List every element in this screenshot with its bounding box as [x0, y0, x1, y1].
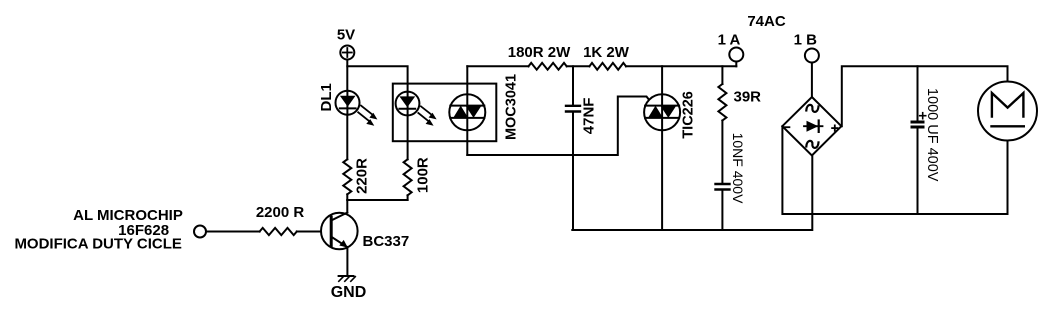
svg-text:MOC3041: MOC3041	[504, 74, 520, 140]
wire opto triac bottom to gate of TIC226	[467, 97, 654, 156]
input terminal	[194, 226, 206, 238]
svg-text:74AC: 74AC	[747, 13, 786, 30]
wire top rail left	[467, 65, 528, 67]
wire 5V to DL1	[346, 60, 348, 91]
wire bottom rail	[572, 156, 812, 231]
resistor 220R	[343, 158, 370, 194]
svg-text:1000 UF 400V: 1000 UF 400V	[924, 88, 940, 182]
resistor 180R 2W	[508, 44, 571, 70]
svg-text:100R: 100R	[415, 157, 432, 193]
svg-text:MODIFICA DUTY CICLE: MODIFICA DUTY CICLE	[14, 236, 182, 253]
ground GND	[331, 276, 367, 301]
optocoupler triac	[449, 66, 519, 155]
svg-text:1K 2W: 1K 2W	[583, 44, 630, 61]
motor M	[978, 82, 1037, 141]
wire bridge right to motor rail	[842, 66, 1008, 126]
svg-text:220R: 220R	[354, 158, 371, 194]
svg-text:TIC226: TIC226	[681, 91, 697, 139]
svg-text:2200 R: 2200 R	[256, 204, 305, 221]
transistor Q1 BC337	[321, 213, 409, 250]
wire R 2200 to base	[297, 231, 331, 233]
resistor 39R	[718, 66, 761, 120]
terminal 1 B	[794, 31, 819, 97]
bridge rectifier	[782, 97, 841, 156]
label microcontroller note	[14, 207, 182, 253]
svg-text:47NF: 47NF	[581, 98, 598, 135]
triac TIC226	[644, 66, 696, 230]
optocoupler U1 box	[393, 84, 497, 142]
wire bridge left down	[782, 126, 1007, 214]
capacitor 10NF 400V	[716, 133, 747, 230]
svg-text:GND: GND	[331, 284, 367, 301]
terminal 1 A	[718, 31, 744, 66]
wire 39R to 10NF	[721, 121, 723, 183]
svg-text:39R: 39R	[734, 89, 762, 106]
wire DL1 to R220	[346, 115, 348, 160]
svg-text:10NF 400V: 10NF 400V	[730, 133, 746, 204]
svg-text:1 B: 1 B	[794, 31, 818, 48]
wire R220 to collector node	[346, 194, 348, 200]
wire R100 to node	[407, 195, 409, 200]
capacitor 1000 UF 400V	[912, 66, 940, 214]
wire emitter to ground	[346, 247, 348, 276]
wire opto LED to R100	[407, 115, 409, 159]
resistor 1K 2W	[583, 44, 630, 70]
wire rail right to 1A	[626, 65, 736, 67]
svg-text:180R 2W: 180R 2W	[508, 44, 571, 61]
power terminal 5V	[337, 27, 355, 60]
svg-text:5V: 5V	[337, 27, 355, 44]
node collector junction wire	[347, 199, 407, 201]
wire collector stub	[346, 200, 348, 213]
resistor 100R	[404, 157, 432, 195]
svg-text:1 A: 1 A	[718, 31, 741, 48]
resistor 2200 R	[256, 204, 305, 235]
wire input to R 2200	[206, 231, 260, 233]
capacitor 47NF	[566, 66, 598, 230]
optocoupler LED	[396, 92, 437, 126]
svg-text:DL1: DL1	[318, 83, 335, 111]
wire 5V branch to optocoupler	[347, 66, 407, 91]
LED DL1	[318, 83, 377, 126]
wire rail mid	[567, 65, 590, 67]
svg-text:BC337: BC337	[363, 233, 410, 250]
